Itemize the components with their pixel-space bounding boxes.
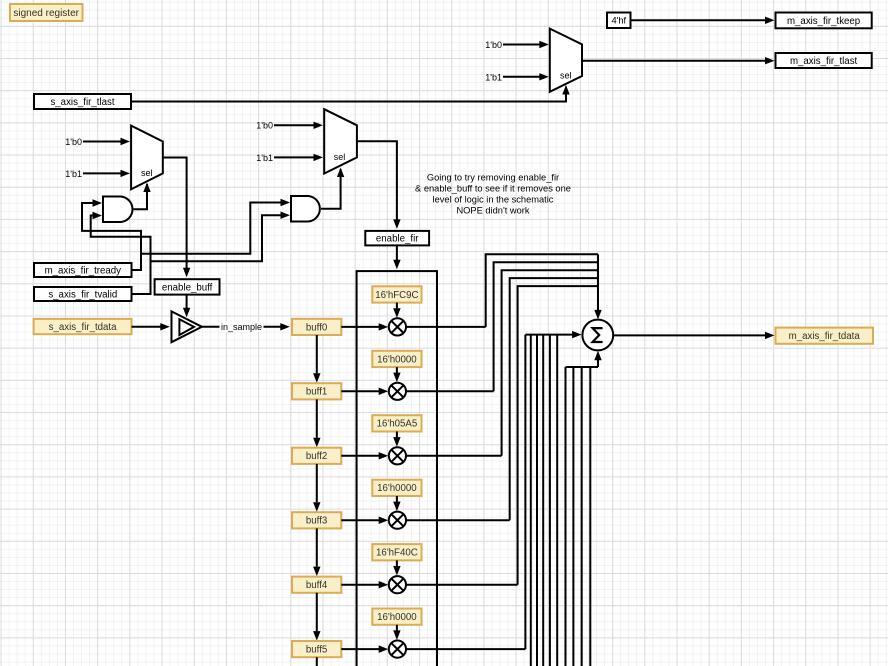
register buff4 <box>292 577 341 593</box>
wire tap6 riser <box>530 335 532 666</box>
svg-text:sel: sel <box>560 71 572 81</box>
mux U2 <box>324 109 357 173</box>
svg-text:1'b0: 1'b0 <box>256 121 273 131</box>
svg-text:sel: sel <box>334 152 346 162</box>
wire buff0 to multiplier M0 <box>341 323 388 330</box>
wire enable_buff to tri-state T1 <box>183 295 190 318</box>
wire buff1 to multiplier M1 <box>341 388 388 395</box>
register buff3 <box>292 512 341 528</box>
wire U2 out to enable_fir <box>357 141 401 229</box>
svg-text:4'hf: 4'hf <box>611 16 626 26</box>
multiplier M1 <box>389 383 406 400</box>
svg-text:s_axis_fir_tdata: s_axis_fir_tdata <box>49 322 117 333</box>
svg-text:signed register: signed register <box>13 8 79 19</box>
svg-text:m_axis_fir_tlast: m_axis_fir_tlast <box>790 56 858 67</box>
wire multiplier M3 out <box>406 519 510 521</box>
svg-text:16'h0000: 16'h0000 <box>377 612 417 623</box>
register buff5 <box>292 641 341 657</box>
svg-text:m_axis_fir_tready: m_axis_fir_tready <box>45 265 122 276</box>
wire enable_fir to multiplier block <box>393 245 400 269</box>
svg-text:enable_fir: enable_fir <box>376 234 419 245</box>
svg-text:enable_buff: enable_buff <box>162 282 213 293</box>
note text <box>415 173 571 216</box>
coefficient b2 16'h05A5 <box>372 415 421 431</box>
coefficient b3 16'h0000 <box>372 480 421 496</box>
mux U1 <box>131 126 163 190</box>
wire 1'b0 to U2 <box>274 122 323 129</box>
wire tap1 riser to summer top <box>494 262 598 391</box>
svg-text:in_sample: in_sample <box>221 322 262 332</box>
wire 1'b1 to U1 <box>83 170 130 177</box>
svg-text:16'h05A5: 16'h05A5 <box>377 419 418 430</box>
coefficient b0 16'hFC9C <box>372 286 421 302</box>
label 1'b0 U3 <box>485 40 502 50</box>
port m_axis_fir_tdata <box>776 328 874 344</box>
port m_axis_fir_tready <box>34 263 132 277</box>
multiplier block rectangle <box>357 271 437 666</box>
port s_axis_fir_tvalid <box>34 287 132 301</box>
multiplier M2 <box>389 447 406 464</box>
wire 1'b0 to U3 <box>503 41 549 48</box>
svg-text:sel: sel <box>141 168 153 178</box>
wire tap2 riser to summer top <box>502 270 598 456</box>
wire tap11 riser <box>565 367 567 666</box>
svg-text:buff3: buff3 <box>306 516 327 527</box>
wire buff3 to multiplier M3 <box>341 517 388 525</box>
wire s_axis_fir_tlast to U3 sel <box>131 85 570 102</box>
port s_axis_fir_tlast <box>34 94 131 109</box>
svg-text:level of logic in the schemati: level of logic in the schematic <box>433 195 554 205</box>
wire buff2 to multiplier M2 <box>341 452 388 459</box>
label 1'b1 U3 <box>485 73 502 83</box>
svg-text:16'hF40C: 16'hF40C <box>376 548 418 559</box>
wire buff2 to buff3 <box>313 464 320 512</box>
label 1'b1 U2 <box>256 153 273 163</box>
register buff2 <box>292 448 341 464</box>
svg-text:buff5: buff5 <box>306 645 327 656</box>
svg-text:buff2: buff2 <box>306 451 327 462</box>
wire buff0 to buff1 <box>313 335 320 383</box>
wire summer to m_axis_fir_tdata <box>613 332 775 339</box>
svg-text:1'b1: 1'b1 <box>485 73 502 83</box>
wire tap12 riser <box>572 367 574 666</box>
wire tap4 riser to summer top <box>518 286 598 585</box>
wire coefficient b4 to multiplier M4 <box>393 560 400 575</box>
wire tap7 riser <box>536 335 538 666</box>
wire buff4 to multiplier M4 <box>341 581 388 588</box>
svg-text:1'b1: 1'b1 <box>256 153 273 163</box>
wire multiplier M4 out <box>406 584 518 586</box>
wire coefficient b0 to multiplier M0 <box>393 303 400 318</box>
coefficient b4 16'hF40C <box>372 544 421 560</box>
constant 4'hf <box>607 13 631 29</box>
and gate G1 <box>103 197 132 223</box>
wire summer top feed <box>594 254 601 319</box>
wire multiplier M0 out <box>406 326 486 328</box>
wire coefficient b2 to multiplier M2 <box>393 432 400 447</box>
svg-text:m_axis_fir_tdata: m_axis_fir_tdata <box>789 331 861 342</box>
wire tap3 riser to summer top <box>510 278 598 520</box>
wire tap9 riser <box>549 335 551 666</box>
wire tap13 riser <box>581 367 583 666</box>
svg-text:buff1: buff1 <box>306 387 327 398</box>
multiplier M3 <box>389 512 406 529</box>
svg-text:m_axis_fir_tkeep: m_axis_fir_tkeep <box>787 16 860 27</box>
label 1'b1 U1 <box>65 169 82 179</box>
mux U3 <box>550 29 582 92</box>
svg-text:& enable_buff to see if it rem: & enable_buff to see if it removes one <box>415 184 571 194</box>
svg-text:16'h0000: 16'h0000 <box>377 483 417 494</box>
wire tap0 riser to summer top <box>486 254 598 327</box>
multiplier M5 <box>389 641 406 658</box>
wire buff4 to buff5 <box>313 593 320 641</box>
register buff1 <box>292 383 341 399</box>
wire G2 out to U2 sel <box>321 168 344 209</box>
svg-text:buff0: buff0 <box>306 322 328 333</box>
wire buff5 to multiplier M5 <box>341 645 388 653</box>
wire multiplier M2 out <box>406 455 502 457</box>
wire 4'hf to m_axis_fir_tkeep <box>631 17 775 24</box>
label 1'b0 U1 <box>65 137 82 147</box>
register buff0 <box>292 319 341 335</box>
svg-text:1'b1: 1'b1 <box>65 169 82 179</box>
wire s_axis_fir_tvalid to G1 <box>91 212 151 294</box>
register enable_buff <box>155 279 220 294</box>
wire G1 out to U1 sel <box>134 183 151 210</box>
port m_axis_fir_tlast <box>776 53 872 68</box>
coefficient b5 16'h0000 <box>372 609 421 625</box>
svg-text:Going to try removing enable_f: Going to try removing enable_fir <box>427 173 559 183</box>
wire tap8 riser <box>542 335 544 666</box>
wire tap10 riser <box>556 335 558 666</box>
wire 1'b0 to U1 <box>83 138 130 145</box>
coefficient b1 16'h0000 <box>372 351 421 367</box>
svg-text:NOPE didn't work: NOPE didn't work <box>456 206 529 216</box>
label signed register <box>10 4 83 21</box>
tri-state buffer T1 <box>172 311 202 342</box>
wire coefficient b5 to multiplier M5 <box>393 625 400 640</box>
label 1'b0 U2 <box>256 121 273 131</box>
wire coefficient b1 to multiplier M1 <box>393 367 400 382</box>
and gate G2 <box>291 196 320 222</box>
svg-text:1'b0: 1'b0 <box>65 137 82 147</box>
svg-text:s_axis_fir_tvalid: s_axis_fir_tvalid <box>48 289 117 300</box>
wire m_axis_fir_tready to G1 <box>82 199 141 270</box>
wire 1'b1 to U2 <box>274 154 323 161</box>
wire summer left feed <box>525 331 581 338</box>
summer S1 <box>582 320 613 351</box>
wire s_axis_fir_tdata to T1 <box>132 323 170 330</box>
svg-text:1'b0: 1'b0 <box>485 40 502 50</box>
wire 1'b1 to U3 <box>503 73 549 80</box>
wire U3 out to m_axis_fir_tlast <box>582 57 775 64</box>
wire multiplier M5 out <box>406 648 525 650</box>
svg-text:16'h0000: 16'h0000 <box>377 354 417 365</box>
svg-text:16'hFC9C: 16'hFC9C <box>375 290 418 301</box>
multiplier M4 <box>389 576 406 593</box>
wire buff1 to buff2 <box>313 399 320 447</box>
wire tap5 riser <box>524 335 526 649</box>
wire buff5 to buff6 <box>316 657 318 666</box>
wire U1 out to enable_buff <box>163 158 191 278</box>
wire buff3 to buff4 <box>313 528 320 576</box>
register enable_fir <box>365 231 429 246</box>
wire multiplier M1 out <box>406 390 494 392</box>
wire in_sample T1 to buff0 <box>202 322 290 333</box>
wire m_axis_fir_tready to G2 <box>141 199 290 254</box>
svg-text:s_axis_fir_tlast: s_axis_fir_tlast <box>50 97 114 108</box>
wire coefficient b3 to multiplier M3 <box>393 496 400 511</box>
wire summer bottom feed <box>566 351 602 367</box>
svg-text:buff4: buff4 <box>306 580 328 591</box>
multiplier M0 <box>389 318 406 335</box>
wire s_axis_fir_tvalid to G2 <box>151 212 291 262</box>
wire tap14 riser <box>589 367 591 666</box>
port s_axis_fir_tdata <box>34 319 132 334</box>
port m_axis_fir_tkeep <box>776 13 872 29</box>
